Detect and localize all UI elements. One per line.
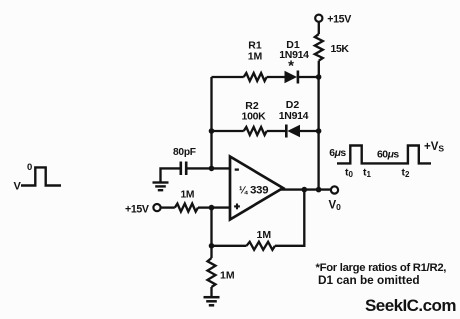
wire D1 to right rail	[298, 76, 319, 78]
diode D1	[285, 71, 298, 84]
resistor 15K	[315, 34, 323, 61]
label plus input	[234, 204, 240, 210]
op-amp U1 1/4 339	[230, 157, 283, 220]
svg-text:+VS: +VS	[424, 141, 444, 154]
node output/feedback	[302, 187, 308, 193]
svg-text:t1: t1	[363, 167, 372, 180]
capacitor C1 80pF	[181, 162, 186, 176]
node R2/left rail	[209, 128, 215, 134]
svg-text:1M: 1M	[248, 51, 263, 63]
node junction dots	[209, 74, 322, 248]
svg-text:+15V: +15V	[125, 204, 149, 216]
svg-text:1N914: 1N914	[279, 110, 309, 122]
terminal +15V top	[315, 15, 322, 22]
svg-text:t2: t2	[402, 167, 411, 180]
ground (bottom)	[204, 297, 220, 305]
svg-text:6μs: 6μs	[329, 148, 346, 159]
node plus input	[209, 205, 215, 211]
svg-text:D1 can be omitted: D1 can be omitted	[318, 273, 420, 287]
resistor R1	[244, 73, 267, 81]
node D2/rail	[316, 128, 322, 134]
wire feedback right and up	[275, 190, 304, 246]
svg-text:100K: 100K	[242, 111, 267, 123]
resistor feedback 1M	[247, 242, 276, 250]
wire output	[281, 188, 331, 190]
svg-text:1M: 1M	[257, 229, 272, 241]
svg-text:t0: t0	[345, 167, 354, 180]
wire feedback node to resistor	[212, 245, 247, 247]
wire R1 branch left segment	[212, 76, 244, 78]
svg-text:80pF: 80pF	[173, 147, 196, 158]
wire right rail (D1 node down to output)	[317, 77, 319, 190]
node minus input	[209, 166, 215, 172]
resistor R2	[244, 127, 267, 135]
svg-text:15K: 15K	[331, 43, 350, 55]
wire input terminal to 1M	[161, 206, 175, 208]
wire R2 branch left segment	[212, 130, 244, 132]
wire plus node to comparator	[212, 206, 231, 208]
wire R1 to D1	[267, 76, 285, 78]
wire feedback node down to 1M	[210, 246, 212, 258]
wire cap left to ground	[161, 168, 181, 181]
output pulse waveform	[337, 146, 431, 164]
wire left rail (R1 corner down to minus node)	[210, 77, 212, 169]
svg-text:60μs: 60μs	[377, 149, 399, 160]
svg-text:1N914: 1N914	[279, 49, 309, 61]
wire minus node to comparator	[212, 167, 231, 169]
wire cap to minus node	[186, 167, 211, 169]
svg-text:V0: V0	[329, 200, 342, 213]
node feedback	[209, 243, 215, 249]
wire plus node down to feedback node	[210, 208, 212, 246]
input pulse waveform	[21, 167, 61, 185]
ground (capacitor)	[153, 183, 169, 191]
wire 15K to D1 node	[318, 61, 320, 77]
svg-text:1M: 1M	[220, 269, 235, 281]
svg-text:¼ 339: ¼ 339	[239, 184, 268, 196]
node D1/15K	[316, 74, 322, 80]
resistor bottom 1M	[208, 258, 216, 287]
wire +15V to 15K	[318, 22, 320, 34]
svg-text:1M: 1M	[181, 189, 195, 200]
svg-text:+15V: +15V	[327, 13, 351, 25]
resistor input 1M	[175, 204, 198, 212]
terminal output V0	[331, 186, 338, 193]
diode D2	[286, 125, 300, 138]
svg-text:0: 0	[27, 162, 32, 173]
svg-text:*: *	[288, 58, 294, 75]
wire R2 to D2	[267, 130, 287, 132]
label minus input	[235, 168, 239, 170]
wire 1M to plus node	[198, 206, 212, 208]
terminal input +15V	[153, 204, 160, 211]
svg-text:V: V	[14, 181, 22, 193]
svg-text:SeekIC.com: SeekIC.com	[365, 296, 456, 315]
node output/rail	[316, 187, 322, 193]
wire D2 to right rail	[300, 130, 319, 132]
wire 1M to ground	[210, 287, 212, 296]
